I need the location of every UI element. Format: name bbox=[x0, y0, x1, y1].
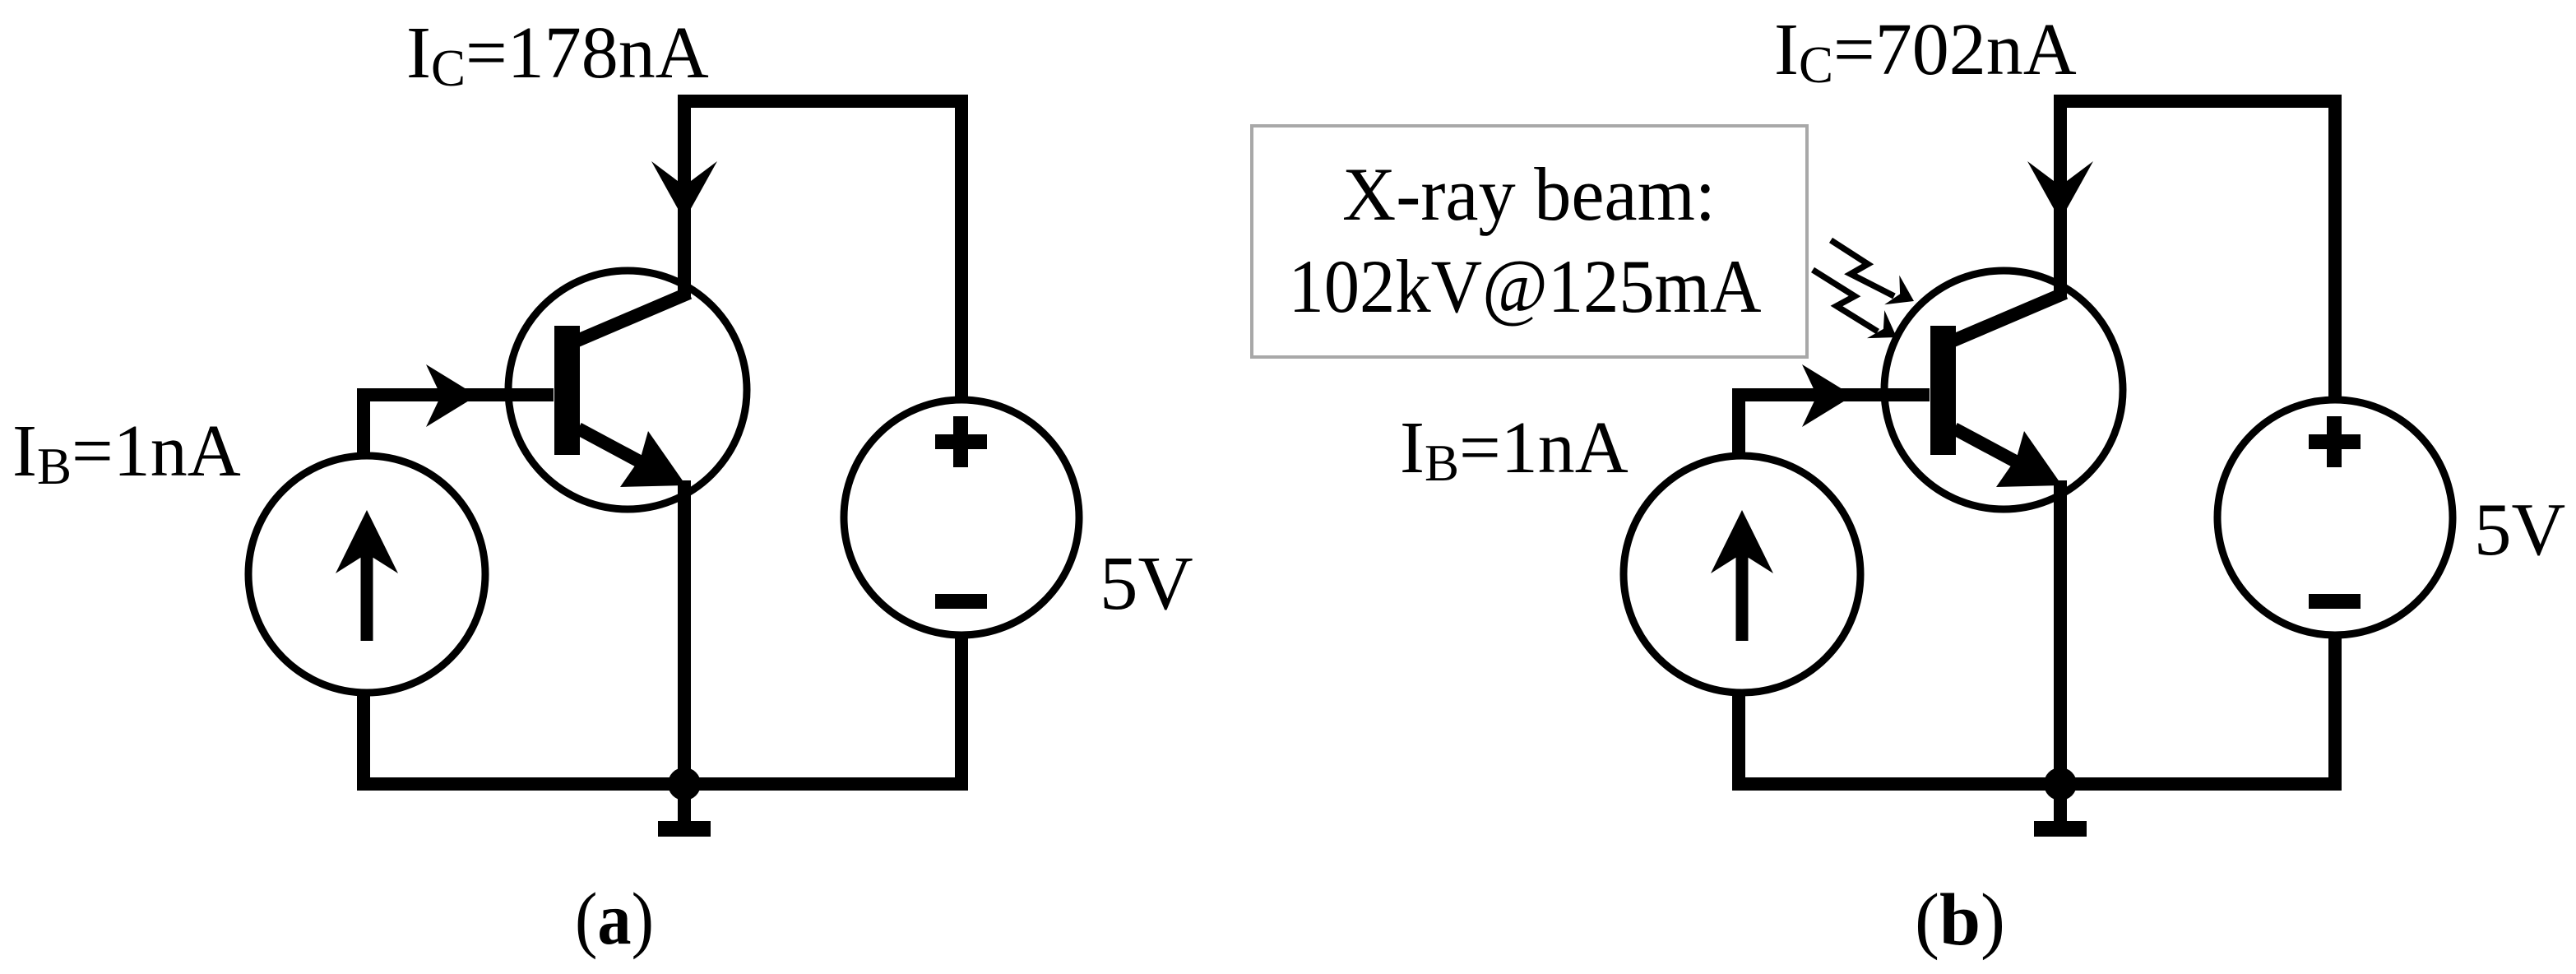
wire: bottom rail b bbox=[1732, 777, 2342, 791]
photon arrow 2 arrowhead bbox=[1867, 310, 1897, 338]
svg-text:102kV@125mA: 102kV@125mA bbox=[1289, 244, 1762, 328]
wire: bottom rail a bbox=[357, 777, 968, 791]
transistor Q (a) base bar bbox=[554, 326, 580, 455]
current source I (a) arrowhead (up) bbox=[336, 510, 398, 573]
arrow: collector current direction arrow b (downward) bbox=[2027, 161, 2093, 220]
svg-text:(b): (b) bbox=[1915, 879, 2005, 961]
node: junction dot a (emitter to ground rail) bbox=[668, 768, 701, 800]
ground symbol a stub bbox=[678, 784, 691, 822]
arrow: collector current direction arrow a (downward) bbox=[651, 161, 717, 220]
wire: base wire b from current source to base bbox=[1739, 395, 1930, 457]
transistor Q (a) collector lead bbox=[577, 293, 689, 341]
voltage source V (b) minus sign bbox=[2309, 594, 2361, 609]
svg-text:5V: 5V bbox=[1100, 541, 1193, 626]
node: junction dot b (emitter to ground rail) bbox=[2044, 768, 2077, 800]
photon arrow 1 arrowhead bbox=[1884, 276, 1914, 305]
arrow: base current direction arrow b (rightward) bbox=[1802, 364, 1853, 427]
wire: current source bottom a bbox=[357, 691, 370, 784]
wire: emitter down b bbox=[2054, 480, 2067, 784]
arrow: base current direction arrow a (rightward) bbox=[426, 364, 477, 427]
wire: base wire a from current source to base bbox=[364, 395, 554, 457]
wire: voltage source bottom b bbox=[2328, 633, 2342, 784]
transistor Q (b) emitter arrowhead bbox=[1996, 431, 2062, 487]
photon arrow 2 (lower X-ray bolt) zigzag bbox=[1813, 270, 1878, 332]
svg-text:5V: 5V bbox=[2474, 488, 2565, 571]
svg-text:X-ray beam:: X-ray beam: bbox=[1342, 152, 1716, 236]
ground symbol a bar bbox=[658, 821, 711, 837]
voltage source V (b) plus sign bbox=[2309, 416, 2361, 467]
transistor Q (b) collector lead bbox=[1953, 293, 2065, 341]
wire: voltage source bottom a bbox=[955, 633, 968, 784]
ground symbol b bar bbox=[2034, 821, 2087, 837]
current source I (a) circle bbox=[248, 456, 485, 693]
wire: collector top loop a (collector up, top rail, down to V source) bbox=[684, 101, 961, 403]
voltage source V (b) circle bbox=[2217, 400, 2453, 635]
transistor Q (b) NPN BJT circle bbox=[1884, 271, 2123, 509]
voltage source V (a) circle bbox=[844, 400, 1079, 635]
current source I (b) arrowhead (up) bbox=[1711, 510, 1773, 573]
current source I (b) circle bbox=[1624, 456, 1860, 693]
transistor Q (a) NPN BJT circle bbox=[508, 271, 747, 509]
current source I (a) arrow shaft bbox=[361, 546, 373, 641]
voltage source V (a) minus sign bbox=[935, 594, 987, 609]
wire: emitter down a bbox=[678, 480, 691, 784]
annotation box: X-ray beam label (b) bbox=[1252, 126, 1807, 357]
svg-text:(a): (a) bbox=[575, 879, 654, 960]
wire: current source bottom b bbox=[1732, 691, 1745, 784]
photon arrow 1 (upper X-ray bolt) zigzag bbox=[1831, 240, 1894, 296]
transistor Q (a) emitter arrowhead bbox=[620, 431, 686, 487]
transistor Q (b) emitter lead bbox=[1954, 429, 2034, 471]
voltage source V (a) plus sign bbox=[935, 416, 987, 467]
ground symbol b stub bbox=[2054, 784, 2067, 822]
wire: collector top loop b (collector up, top rail, down to V source) bbox=[2060, 101, 2335, 403]
transistor Q (b) base bar bbox=[1930, 326, 1956, 455]
current source I (b) arrow shaft bbox=[1736, 546, 1749, 641]
transistor Q (a) emitter lead bbox=[578, 429, 658, 471]
